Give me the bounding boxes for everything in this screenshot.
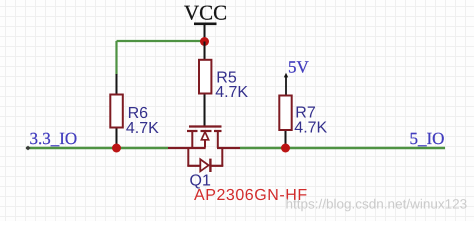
svg-text:4.7K: 4.7K <box>215 84 248 101</box>
svg-text:5V: 5V <box>288 58 310 77</box>
svg-text:https://blog.csdn.net/winux123: https://blog.csdn.net/winux123 <box>286 197 468 212</box>
svg-text:5_IO: 5_IO <box>410 129 445 148</box>
svg-text:4.7K: 4.7K <box>126 120 159 137</box>
svg-text:VCC: VCC <box>184 1 227 25</box>
svg-text:3.3_IO: 3.3_IO <box>30 129 78 148</box>
svg-text:4.7K: 4.7K <box>294 119 327 136</box>
